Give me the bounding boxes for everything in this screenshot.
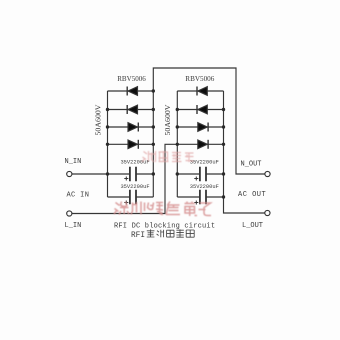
- svg-text:AC OUT: AC OUT: [238, 191, 266, 199]
- capacitor C4 plates: [200, 190, 206, 204]
- label 35V2200uF C2: [120, 184, 149, 190]
- label L_OUT: [242, 222, 263, 230]
- svg-text:50A600V: 50A600V: [163, 104, 172, 135]
- diode D6: [197, 105, 207, 114]
- capacitor C1 polarity mark: [124, 177, 128, 181]
- svg-text:AC IN: AC IN: [67, 192, 90, 200]
- svg-text:RBV5006: RBV5006: [117, 74, 146, 83]
- wire BR2 output to L_OUT: [224, 197, 265, 213]
- wire BR1 diode row 3: [108, 126, 154, 128]
- wire BR2 diode row 3: [177, 126, 223, 128]
- capacitor C1 plates: [130, 167, 136, 181]
- label AC IN: [67, 192, 90, 200]
- diode D5: [197, 87, 207, 96]
- diode D3: [128, 123, 138, 132]
- wire BR1 diode row 2: [108, 109, 154, 111]
- capacitor C2 plates: [130, 190, 136, 204]
- label N_IN: [65, 158, 82, 166]
- svg-text:RFI DC blocking circuit: RFI DC blocking circuit: [114, 223, 215, 231]
- wire N_IN to BR1: [72, 173, 108, 175]
- svg-text:35V2200uF: 35V2200uF: [190, 184, 219, 190]
- bridge rectifier BR2 left rail: [176, 91, 178, 197]
- label L_IN: [65, 222, 82, 230]
- capacitor C3 polarity mark: [194, 177, 198, 181]
- title RFI DC blocking circuit: [114, 223, 215, 231]
- wire BR2 diode row 4: [177, 143, 223, 145]
- bridge rectifier BR1 left rail: [107, 91, 109, 197]
- svg-text:N_IN: N_IN: [65, 158, 82, 166]
- diode D4: [128, 140, 138, 149]
- terminal N_IN: [67, 171, 72, 176]
- svg-text:L_IN: L_IN: [65, 222, 82, 230]
- wire BR2 capacitor row 2: [177, 196, 223, 198]
- label RBV5006 for BR2: [185, 74, 214, 83]
- svg-text:35V2200uF: 35V2200uF: [190, 159, 219, 165]
- terminal N_OUT: [265, 171, 270, 176]
- terminal L_IN: [67, 211, 72, 216]
- label 35V2200uF C1: [120, 160, 149, 166]
- svg-text:RBV5006: RBV5006: [185, 74, 214, 83]
- svg-text:RFI: RFI: [131, 232, 145, 240]
- terminal L_OUT: [265, 210, 270, 215]
- label N_OUT: [241, 161, 262, 169]
- wire jumper BR1 output to N_OUT: [153, 68, 264, 174]
- diode D7: [198, 123, 208, 132]
- label 50A600V for BR2: [163, 104, 172, 135]
- svg-text:50A600V: 50A600V: [94, 104, 103, 135]
- wire BR1 diode row 1: [108, 90, 154, 92]
- diode D8: [198, 140, 208, 149]
- watermark row 2 (pink CJK: Shenzhen Xiangsheng Electronics): [114, 202, 211, 217]
- diode D1: [127, 87, 137, 96]
- bridge rectifier BR2 right rail: [223, 91, 225, 197]
- svg-text:L_OUT: L_OUT: [242, 222, 263, 230]
- wire BR1 capacitor row 2: [108, 196, 154, 198]
- watermark row 1 (pink CJK): [142, 151, 194, 162]
- wire BR1 diode row 4: [108, 143, 154, 145]
- label 35V2200uF C4: [190, 184, 219, 190]
- svg-text:35V2200uF: 35V2200uF: [120, 160, 149, 166]
- wire BR2 capacitor row 1: [177, 173, 223, 175]
- wire BR1 capacitor row 1: [108, 173, 154, 175]
- diode D2: [127, 105, 137, 114]
- label RBV5006 for BR1: [117, 74, 146, 83]
- label 50A600V for BR1: [94, 104, 103, 135]
- junction dots: [106, 89, 225, 198]
- capacitor C4 polarity mark: [194, 201, 198, 205]
- capacitor C3 plates: [200, 167, 206, 181]
- label AC OUT: [238, 191, 266, 199]
- label 35V2200uF C3: [190, 159, 219, 165]
- wire BR2 diode row 1: [177, 90, 223, 92]
- bridge rectifier BR1 right rail: [152, 91, 154, 197]
- title RFI Chinese (RFI DC blocker): [131, 229, 194, 239]
- svg-text:N_OUT: N_OUT: [241, 161, 262, 169]
- capacitor C2 polarity mark: [124, 201, 128, 205]
- wire L_IN to BR2: [72, 144, 177, 213]
- wire BR2 diode row 2: [177, 109, 223, 111]
- svg-text:35V2200uF: 35V2200uF: [120, 184, 149, 190]
